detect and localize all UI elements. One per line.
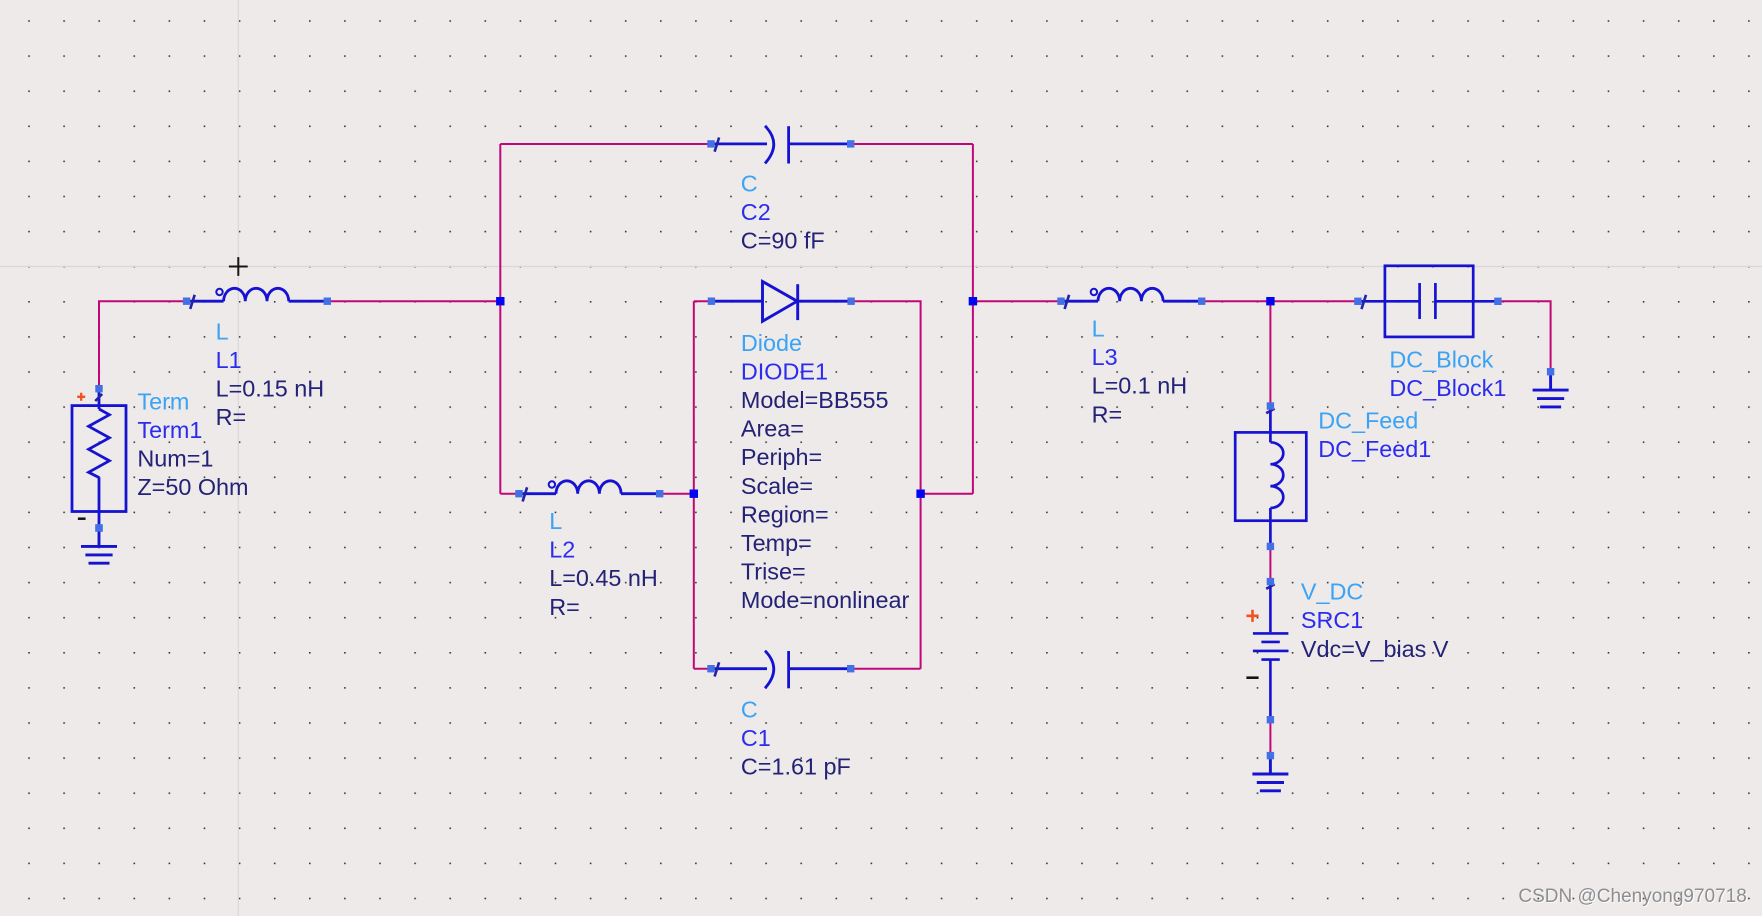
label block L3 [1092, 316, 1188, 428]
svg-text:L=0.15 nH: L=0.15 nH [216, 375, 325, 401]
label block C2 [741, 171, 825, 254]
wire C2 pin2 to right riser [851, 143, 973, 145]
svg-text:L1: L1 [216, 347, 242, 373]
DC_Feed DC_Feed1 [1235, 408, 1306, 544]
svg-text:SRC1: SRC1 [1301, 607, 1363, 633]
label block L2 [549, 508, 658, 620]
svg-text:Area=: Area= [741, 416, 804, 442]
junction node B (C2 return/L3) [969, 297, 977, 305]
svg-text:C=90 fF: C=90 fF [741, 228, 825, 254]
svg-text:Z=50 Ohm: Z=50 Ohm [137, 474, 248, 500]
wire to C2 pin1 [500, 143, 711, 145]
svg-text:L: L [216, 318, 229, 344]
svg-text:L: L [1092, 316, 1105, 342]
svg-text:Trise=: Trise= [741, 559, 806, 585]
svg-text:DC_Block: DC_Block [1389, 347, 1493, 373]
inductor L2 [520, 481, 658, 494]
wire node B to L3 pin1 [973, 300, 1061, 302]
svg-text:Term1: Term1 [137, 417, 202, 443]
ground under Term1 [81, 530, 117, 563]
svg-text:R=: R= [216, 404, 247, 430]
wire diode cathode to loop right vertical [851, 301, 921, 669]
wire drop to DC_Feed pin1 [1269, 301, 1271, 406]
svg-text:Scale=: Scale= [741, 473, 813, 499]
svg-text:Mode=nonlinear: Mode=nonlinear [741, 587, 910, 613]
wire SRC1 minus to ground [1269, 720, 1271, 756]
svg-text:C2: C2 [741, 199, 771, 225]
label block SRC1 [1301, 579, 1449, 662]
svg-text:V_DC: V_DC [1301, 579, 1363, 605]
junction node L3/DC_Block/DC_Feed tee [1266, 297, 1274, 305]
junction node loop-riser link [916, 490, 924, 498]
wire Term1 top to L1 pin1 [99, 301, 187, 389]
diode DIODE1 [713, 282, 849, 322]
svg-text:L=0.1 nH: L=0.1 nH [1092, 373, 1188, 399]
svg-text:Term: Term [137, 388, 189, 414]
capacitor C1 [712, 651, 850, 689]
svg-text:Vdc=V_bias V: Vdc=V_bias V [1301, 636, 1449, 662]
svg-text:Num=1: Num=1 [137, 446, 213, 472]
wire to L2 pin1 [500, 493, 519, 495]
ground under DC_Block1 [1533, 374, 1569, 407]
port Term1 [72, 392, 126, 525]
wire node A vertical (C2 row to L2 row) [499, 144, 501, 494]
svg-text:L3: L3 [1092, 344, 1118, 370]
label block L1 [216, 318, 325, 430]
wire DC_Block pin2 to ground [1498, 301, 1551, 372]
label block C1 [741, 696, 851, 779]
wire link row stub [921, 493, 973, 495]
svg-text:L: L [549, 508, 562, 534]
DC_Block DC_Block1 [1360, 266, 1496, 337]
origin crosshair [229, 257, 248, 276]
svg-text:L2: L2 [549, 537, 575, 563]
wire right riser (C2 row to link row) [972, 144, 974, 494]
svg-text:R=: R= [1092, 401, 1123, 427]
svg-text:R=: R= [549, 594, 580, 620]
wire stub to diode anode [694, 300, 712, 302]
wire C1 pin2 to loop right corner [851, 668, 921, 670]
inductor L1 [188, 288, 326, 301]
wire stub to C1 pin1 [694, 668, 711, 670]
wire L3 pin2 to DC_Block pin1 [1201, 300, 1358, 302]
label block DC_Feed1 [1318, 407, 1431, 462]
ground under SRC1 [1252, 758, 1288, 791]
svg-text:Temp=: Temp= [741, 530, 812, 556]
label block DIODE1 [741, 330, 910, 613]
svg-text:DIODE1: DIODE1 [741, 358, 828, 384]
svg-text:DC_Feed1: DC_Feed1 [1318, 436, 1431, 462]
svg-text:L=0.45 nH: L=0.45 nH [549, 565, 658, 591]
svg-text:C: C [741, 171, 758, 197]
wire L2 pin2 to diode loop left [658, 493, 694, 495]
label block Term1 [137, 388, 248, 500]
junction node A (L1/C2/L2 split) [496, 297, 504, 305]
DC source V_DC SRC1 (battery) [1253, 584, 1289, 717]
svg-text:Region=: Region= [741, 501, 829, 527]
capacitor C2 [712, 126, 850, 164]
svg-text:DC_Block1: DC_Block1 [1389, 375, 1506, 401]
svg-text:C: C [741, 696, 758, 722]
svg-text:Diode: Diode [741, 330, 802, 356]
wire L1 pin2 to node A [327, 300, 500, 302]
junction node L2-diode loop [690, 490, 698, 498]
inductor L3 [1062, 288, 1200, 301]
svg-text:CSDN @Chenyong970718: CSDN @Chenyong970718 [1518, 886, 1746, 907]
svg-text:Periph=: Periph= [741, 444, 822, 470]
label block DC_Block1 [1389, 347, 1506, 402]
svg-text:C1: C1 [741, 725, 771, 751]
wire DC_Feed pin2 to SRC1 plus [1269, 546, 1271, 581]
svg-text:C=1.61 pF: C=1.61 pF [741, 754, 851, 780]
svg-text:DC_Feed: DC_Feed [1318, 407, 1418, 433]
svg-text:Model=BB555: Model=BB555 [741, 387, 889, 413]
wire diode loop left vertical [693, 301, 695, 669]
